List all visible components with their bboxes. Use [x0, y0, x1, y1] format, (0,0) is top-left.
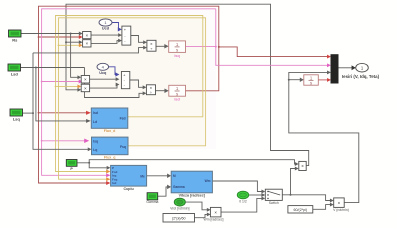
arrow Fsq cuplu: [106, 177, 110, 181]
wire const60_2pi to xright: [313, 205, 331, 210]
inport Vrot oval: [170, 198, 189, 210]
wire const012 to switch: [249, 194, 263, 196]
wire Ucq to sum2: [108, 67, 117, 75]
arrow Lsq fluxq: [88, 147, 92, 151]
mux: [331, 55, 338, 83]
outport Iesiri: [342, 63, 380, 79]
wire Ucd to sum1: [112, 23, 120, 30]
switch: [265, 189, 282, 205]
wire sum2 to div2: [130, 80, 144, 87]
arrow Isd fluxd: [86, 111, 91, 115]
wire Isd maroon net: [39, 6, 329, 183]
arrow Lsq div1: [143, 46, 147, 50]
wire Wm viteza to switch: [212, 181, 262, 192]
constant 0 1/2: [237, 191, 248, 203]
product Xcenter: [299, 161, 306, 170]
wire mult2b to sum2: [90, 85, 118, 89]
product Xbot: [204, 207, 224, 221]
wire Lsq: [23, 48, 145, 150]
constant (2*pi)/60: [163, 214, 195, 223]
wire xbot to switch in3: [221, 198, 263, 212]
integrator Isq: [169, 41, 186, 58]
junction Isd top: [218, 46, 220, 48]
divide block row1: [147, 40, 156, 51]
multiplier row2a: [81, 76, 89, 84]
sum block row1: [122, 26, 131, 45]
wire P distribution: [77, 160, 296, 168]
wire mult1a to sum1: [91, 34, 120, 36]
constant 60/(2*pi): [288, 206, 313, 213]
arrow Rs mult2a: [77, 75, 81, 79]
arrow speed xright: [330, 199, 334, 203]
multiplier row1a: [83, 32, 91, 39]
wire mux out: [338, 67, 353, 69]
wire vrot oval to xbot: [185, 202, 208, 210]
arrow Fsq mult1b: [79, 43, 83, 47]
inport Ucd: [99, 19, 112, 31]
wire Fsd yellow net: [56, 16, 203, 172]
integrator Teta: [304, 75, 319, 86]
wire xright up to mux3 and int3: [289, 72, 359, 202]
arrow omega mult1b: [79, 40, 83, 44]
wire Lsd: [21, 68, 144, 121]
inport Ucq: [97, 63, 109, 75]
wire switch out speed net: [282, 169, 331, 201]
From tag Lsq: [10, 109, 23, 121]
wire Isq pink net: [42, 9, 329, 176]
wire sum1 to div1: [131, 36, 145, 43]
From tag Rs: [9, 30, 22, 42]
wire Fsq yellow net: [59, 18, 206, 179]
subsystem Flux_q: [92, 137, 129, 160]
arrow speed xcenter: [295, 167, 299, 171]
arrow Lsd div2: [143, 91, 147, 95]
arrow P cuplu: [107, 166, 111, 170]
sum block row2: [121, 72, 129, 89]
multiplier row1b: [83, 40, 91, 47]
arrow omega mult2b: [77, 88, 81, 92]
arrow speed mux3: [327, 70, 331, 74]
wire div2 to int2: [156, 90, 166, 92]
wire Rs distribution: [21, 34, 80, 78]
arrow Fsd cuplu: [106, 170, 110, 174]
arrow Fsd mult2b: [77, 84, 81, 88]
arrow Lsd fluxd: [86, 119, 91, 123]
arrow Isd mult1a: [79, 35, 83, 39]
wire mult2a to sum2: [90, 78, 117, 80]
multiplier row2b: [81, 84, 89, 92]
wire const2pi60 to xbot: [195, 214, 209, 217]
arrow Rs mult1a: [79, 32, 83, 36]
From tag P: [66, 160, 77, 172]
integrator Isd: [169, 85, 186, 101]
subsystem Viteza: [171, 171, 212, 197]
arrow Isd cuplu: [106, 181, 110, 185]
wire div1 to int1: [156, 45, 166, 47]
divide block row2: [146, 85, 155, 95]
subsystem Flux_d: [91, 108, 128, 133]
arrow Isq cuplu: [106, 173, 110, 177]
wire mult1b to sum1: [91, 41, 119, 44]
wire gamma tag to viteza: [158, 187, 169, 196]
wire omega black loop: [66, 4, 309, 165]
arrow Isd mux1: [327, 55, 331, 59]
arrow Isq fluxq: [84, 139, 89, 144]
From tag Gamma: [146, 193, 158, 205]
arrow P xcenter: [295, 162, 299, 166]
wire int3 to mux4 red: [318, 79, 328, 81]
junction omega: [65, 41, 67, 43]
arrow Isq mult2a: [79, 80, 83, 84]
subsystem Cuplu: [111, 165, 147, 191]
From tag Lsd: [8, 64, 21, 76]
arrow Isq mux2: [327, 63, 331, 67]
arrow speed int3: [300, 77, 304, 82]
product Xright: [333, 198, 349, 212]
wire Me cuplu to viteza: [147, 175, 169, 177]
faint interior tint: [56, 16, 205, 146]
